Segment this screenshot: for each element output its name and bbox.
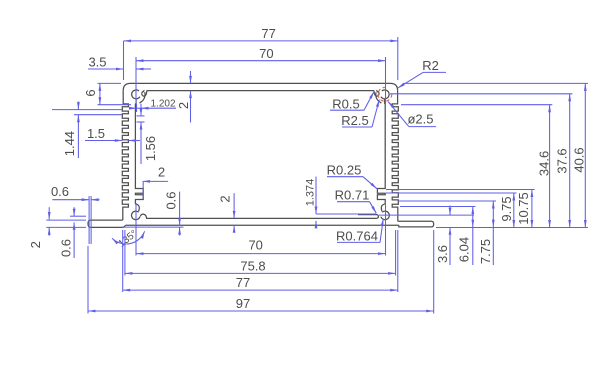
svg-text:2: 2 (218, 195, 233, 202)
top-left screw boss hole (132, 90, 140, 99)
extension line left flange end (87, 246, 89, 314)
extension lines for 6 (98, 83, 132, 104)
dimension 2 floor (218, 193, 236, 233)
dimension 1.56 (140, 108, 158, 163)
svg-text:1.202: 1.202 (151, 98, 176, 109)
extension line bottom right boss (385, 203, 387, 256)
dimension 0.6 left (51, 184, 100, 201)
leader R2 (398, 58, 447, 88)
extension line bottom left boss (135, 203, 137, 256)
svg-text:9.75: 9.75 (499, 196, 514, 221)
extension line top right to 40.6 (403, 82, 588, 84)
extension line right flange end (433, 230, 435, 314)
extension lines for 1.44 (52, 110, 122, 115)
svg-text:3.6: 3.6 (435, 245, 450, 263)
svg-text:R0.71: R0.71 (335, 188, 370, 203)
svg-text:1.374: 1.374 (305, 179, 317, 207)
dimension 1.5 with leader (85, 126, 140, 142)
dimension 34.6 (537, 105, 552, 228)
extension line 10.75 (386, 189, 535, 191)
leader R0.71 (335, 188, 377, 214)
svg-text:37.6: 37.6 (555, 148, 570, 173)
extension line 37.6 (390, 93, 572, 95)
svg-text:77: 77 (261, 26, 275, 41)
extension line 3.6 ledge (379, 214, 474, 216)
svg-text:3.5: 3.5 (88, 54, 106, 69)
dimension 70 bottom (136, 237, 386, 255)
svg-text:97: 97 (236, 296, 250, 311)
extension line 7.75 (398, 200, 497, 202)
svg-text:40.6: 40.6 (572, 147, 587, 172)
right bottom flange (398, 221, 434, 227)
extension line 34.6 (401, 104, 552, 106)
dimension 2 top wall (176, 71, 192, 123)
dimension 6 (83, 83, 101, 104)
dimension 40.6 (572, 83, 587, 227)
profile top wall inner edge (147, 90, 375, 92)
svg-text:2: 2 (28, 241, 43, 248)
extension line flange-bottom level left (122, 226, 184, 228)
bottom-right screw boss (381, 211, 389, 220)
extension lines for 1.202 (137, 104, 142, 112)
profile top wall outer edge (123, 83, 397, 90)
svg-text:10.75: 10.75 (516, 192, 531, 225)
leader R0.25 (327, 162, 377, 189)
dimension 97 bottom (88, 296, 434, 313)
svg-text:R0.5: R0.5 (332, 97, 359, 112)
svg-text:75.8: 75.8 (240, 258, 265, 273)
dimension 1.202 (129, 98, 176, 109)
svg-text:R0.25: R0.25 (327, 162, 362, 177)
profile left wall fins (122, 91, 128, 221)
extension lines bottom right (396, 230, 398, 292)
extension lines 2 left-bottom (46, 220, 86, 227)
svg-text:6: 6 (83, 89, 98, 96)
bottom-left ledge nose (140, 214, 376, 218)
svg-text:1.5: 1.5 (87, 126, 105, 141)
extension lines top-right corner and boss (386, 37, 398, 104)
dimension 7.75 (478, 201, 495, 265)
dimension 37.6 (555, 94, 572, 228)
top-left boss mouth hook (142, 90, 147, 96)
top-right screw boss hole (381, 90, 389, 99)
dimension 75.8 bottom (125, 258, 396, 274)
svg-text:0.6: 0.6 (58, 239, 73, 257)
svg-text:70: 70 (259, 46, 273, 61)
profile left wall inner with PCB guides (135, 103, 143, 211)
extension line 6.04 (400, 206, 476, 208)
dimension 1.44 (62, 102, 80, 159)
dimension 2 left-bottom (28, 207, 50, 248)
svg-text:7.75: 7.75 (478, 239, 493, 264)
top-left screw boss outer arc (135, 92, 145, 103)
dimension 0.6 floor-to-flange (164, 191, 181, 235)
svg-text:0.6: 0.6 (51, 184, 69, 199)
leader R0.5 (330, 92, 374, 112)
dimension 6.04 (457, 207, 475, 266)
svg-text:0.6: 0.6 (164, 191, 179, 209)
thread circle (red dashed) (378, 87, 392, 101)
dimension 3.5 (88, 54, 151, 70)
svg-text:70: 70 (248, 237, 262, 252)
svg-text:1.44: 1.44 (62, 131, 77, 156)
left bottom flange (88, 220, 126, 227)
dimension 2 card-guide (143, 165, 169, 199)
svg-text:2: 2 (176, 102, 191, 109)
svg-text:R2.5: R2.5 (341, 113, 368, 128)
profile right wall inner with PCB guides (377, 103, 385, 211)
profile right wall fins (392, 91, 398, 222)
leader R2.5 (341, 100, 379, 129)
dimension 1.374 (305, 177, 377, 229)
bottom-left screw boss (132, 211, 140, 220)
svg-text:R0.764: R0.764 (336, 228, 378, 243)
extension lines top-left corner and boss (124, 41, 137, 104)
leader diameter 2.5 (388, 102, 436, 127)
extension line bottom right long (436, 227, 588, 229)
leader R0.764 (336, 219, 383, 244)
dimension 9.75 (499, 193, 515, 228)
extension lines for 1.56 (137, 116, 145, 122)
top-right screw boss outer arc (376, 92, 385, 103)
angle dimension 135 (112, 228, 145, 249)
svg-text:R2: R2 (422, 58, 439, 73)
dimension 70 top (136, 46, 386, 62)
svg-text:34.6: 34.6 (537, 151, 552, 176)
floor bottom edge (126, 224, 399, 226)
svg-text:6.04: 6.04 (457, 237, 472, 262)
extension lines bottom left wall (123, 230, 125, 292)
dimension 3.6 (435, 206, 451, 266)
svg-text:ø2.5: ø2.5 (407, 111, 433, 126)
dimension 0.6 left-bottom-2 (58, 207, 86, 258)
svg-text:77: 77 (236, 275, 250, 290)
extension line 9.75 (386, 192, 517, 194)
floor slab top with rounded nose (358, 215, 378, 219)
dimension 10.75 (516, 190, 533, 228)
top-right boss mouth hook (374, 90, 379, 96)
svg-text:2: 2 (158, 165, 165, 180)
svg-text:1.56: 1.56 (143, 136, 158, 161)
extension lines 0.6 left (89, 196, 91, 244)
dimension 77 top (124, 26, 398, 42)
dimension 77 bottom (123, 275, 398, 291)
